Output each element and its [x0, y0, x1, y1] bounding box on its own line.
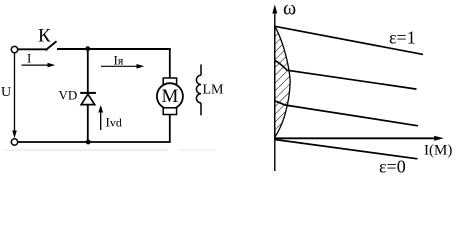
wire left vertical (source) with arrow — [14, 53, 16, 133]
svg-text:U: U — [1, 85, 11, 100]
motor M body — [157, 83, 183, 109]
arrow I — [22, 64, 50, 66]
svg-text:ε=1: ε=1 — [389, 28, 416, 48]
motor M brush bottom — [163, 108, 176, 115]
wire bottom horizontal — [18, 141, 171, 143]
diode VD triangle — [81, 94, 95, 104]
switch K blade — [46, 41, 57, 50]
svg-text:ω: ω — [283, 0, 296, 20]
motor M brush top — [163, 78, 176, 85]
node junction top (diode tap) — [85, 46, 90, 51]
svg-text:I(M): I(M) — [424, 143, 452, 159]
node junction bottom (diode return) — [86, 140, 91, 145]
diode VD cathode bar — [80, 92, 96, 94]
curve epsilon=0 — [275, 140, 418, 159]
curve 2 — [275, 61, 417, 90]
terminal top-left — [11, 46, 17, 52]
wire diode branch vertical — [87, 48, 89, 142]
wire top horizontal — [57, 48, 171, 50]
curve 3 — [275, 101, 418, 126]
svg-text:ε=0: ε=0 — [379, 156, 406, 176]
svg-text:LM: LM — [203, 83, 225, 98]
svg-text:M: M — [161, 86, 178, 107]
svg-text:Iя: Iя — [114, 52, 124, 67]
wire motor branch right vertical bottom — [169, 115, 171, 143]
terminal bottom-left — [11, 139, 17, 145]
inductor LM coil — [196, 64, 201, 115]
curve epsilon=1 — [275, 26, 423, 54]
axis horizontal I(M) — [275, 137, 437, 139]
axis vertical (omega) — [274, 8, 276, 171]
hatched boundary region (discontinuous current zone) — [275, 27, 290, 138]
svg-text:Ivd: Ivd — [106, 115, 122, 130]
svg-text:К: К — [38, 26, 51, 47]
svg-text:I: I — [27, 51, 31, 66]
arrow Iя — [101, 65, 139, 67]
svg-text:VD: VD — [59, 88, 78, 103]
wire top: terminal to switch — [18, 48, 48, 50]
arrow Ivd — [100, 109, 102, 130]
wire motor branch right vertical top — [169, 48, 171, 79]
